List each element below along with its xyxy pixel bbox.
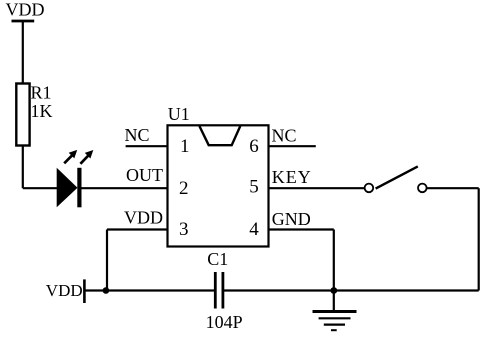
svg-text:1K: 1K xyxy=(31,101,53,121)
svg-text:5: 5 xyxy=(249,177,258,198)
svg-text:2: 2 xyxy=(179,178,189,199)
svg-text:U1: U1 xyxy=(168,104,190,124)
svg-text:VDD: VDD xyxy=(124,208,163,228)
svg-text:3: 3 xyxy=(179,219,189,240)
svg-text:GND: GND xyxy=(272,209,311,229)
svg-text:KEY: KEY xyxy=(272,167,312,187)
svg-text:VDD: VDD xyxy=(6,0,45,20)
svg-text:104P: 104P xyxy=(206,312,243,332)
svg-text:NC: NC xyxy=(125,125,150,145)
svg-text:4: 4 xyxy=(249,219,259,240)
svg-text:NC: NC xyxy=(272,125,297,145)
svg-text:VDD: VDD xyxy=(46,281,83,300)
svg-text:6: 6 xyxy=(249,136,258,157)
svg-text:OUT: OUT xyxy=(126,165,163,185)
svg-text:R1: R1 xyxy=(31,83,52,103)
svg-text:1: 1 xyxy=(180,136,190,157)
svg-text:C1: C1 xyxy=(207,249,228,269)
